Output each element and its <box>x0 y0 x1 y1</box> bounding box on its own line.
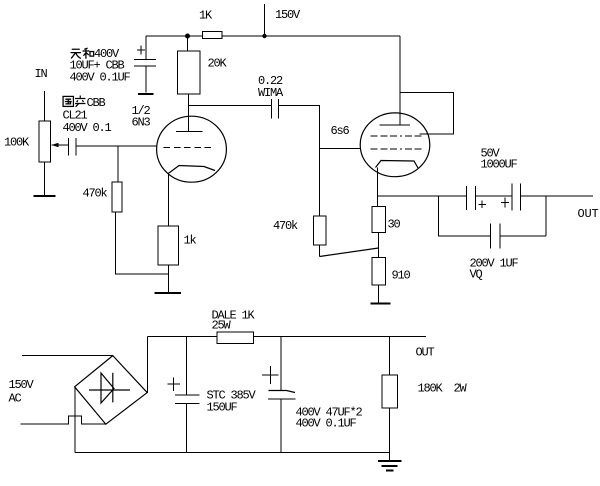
polarity plus of C1 <box>479 201 487 209</box>
tube V1 plate bar <box>176 131 203 133</box>
capacitor filter 10UF+CBB lead <box>145 36 147 93</box>
svg-text:6s6: 6s6 <box>331 124 350 138</box>
svg-text:30: 30 <box>388 218 401 232</box>
wire top B+ rail <box>146 35 400 37</box>
wire V1 cathode lead <box>168 173 170 227</box>
wire STC cap bottom lead <box>186 404 188 453</box>
polarity plus of STC cap <box>168 378 181 392</box>
capacitor coupling 0.22 WIMA plates <box>272 99 279 119</box>
wire 470k bottom to cathode return <box>116 212 169 274</box>
ground earth symbol <box>378 453 402 471</box>
bridge diode cathode bar <box>112 373 114 403</box>
ground bar under 1k <box>155 292 182 294</box>
tube V2 6s6 envelope <box>360 113 430 177</box>
svg-text:25W: 25W <box>212 319 232 333</box>
svg-text:400V 0.1: 400V 0.1 <box>63 121 112 135</box>
potentiometer R 100K body <box>39 121 51 162</box>
svg-text:6N3: 6N3 <box>132 116 151 130</box>
wire AC input lower with crossover hop <box>21 416 106 424</box>
capacitor 47UF*2 upper plate with tick <box>269 391 296 393</box>
capacitor filter 10UF+CBB plates <box>134 60 156 67</box>
wire screen-to-plate tie loop <box>400 93 454 135</box>
resistor R 180K 2W <box>382 375 398 408</box>
svg-text:AC: AC <box>9 392 22 406</box>
node junction dot at 150V tap <box>262 34 266 38</box>
node junction dot at 20K tap <box>185 34 190 39</box>
tube V1 1/2 6N3 envelope <box>157 116 227 182</box>
tube V2 control grid dash-dot line <box>371 148 423 150</box>
svg-text:400V 0.1UF: 400V 0.1UF <box>70 71 131 85</box>
polarity plus sign of filter cap <box>137 46 145 55</box>
wire 150V supply stub <box>264 4 266 36</box>
resistor R DALE 1K 25W <box>217 332 254 344</box>
wire V2 cathode lead <box>377 168 379 207</box>
capacitor 47UF*2 lower plate <box>268 398 296 400</box>
potentiometer wiper arrowhead <box>52 143 59 147</box>
tube V2 cathode <box>376 161 419 169</box>
wire 20K to plate of V1 <box>188 94 190 132</box>
wire 100K bottom lead <box>44 162 46 195</box>
wire bypass branch left drop <box>439 196 491 236</box>
potentiometer wiper arm <box>52 144 69 146</box>
value label 天和400V <box>71 47 120 61</box>
resistor R 1k cathode <box>158 226 179 265</box>
svg-text:20K: 20K <box>208 57 228 71</box>
svg-text:VQ: VQ <box>470 268 483 282</box>
wire 30 to 910 <box>378 233 380 258</box>
capacitor output electrolytic C2 plates <box>512 184 521 211</box>
resistor R 30 cathode <box>372 207 386 233</box>
svg-text:400V 0.1UF: 400V 0.1UF <box>296 417 357 431</box>
tube V2 plate bar <box>380 124 411 126</box>
capacitor input CL21 plates <box>69 138 77 156</box>
wire bypass branch right rise <box>501 196 547 236</box>
polarity plus of 47UF cap <box>262 366 279 384</box>
wire B+ rail of PSU <box>148 336 427 338</box>
wire coupling cap to grid of V2 <box>279 106 361 149</box>
wire 47UF cap riser <box>280 337 282 391</box>
wire 180K riser <box>389 337 391 376</box>
wire AC input upper <box>22 355 113 357</box>
resistor R 20K <box>178 51 201 94</box>
resistor R 470k grid leak V2 <box>314 216 327 245</box>
bridge rectifier diamond <box>75 356 148 425</box>
tube V1 cathode <box>169 166 215 174</box>
bridge diode triangle <box>101 373 114 403</box>
svg-text:470k: 470k <box>83 187 108 201</box>
svg-text:1K: 1K <box>199 9 213 23</box>
wire diagonal 470k return to cathode divider <box>320 248 379 257</box>
ground bar under 100K <box>34 195 56 197</box>
tube V1 grid dashed line <box>164 147 215 149</box>
svg-text:150UF: 150UF <box>207 401 238 415</box>
terminal IN stub <box>44 91 46 121</box>
wire 180K bottom lead <box>389 408 391 453</box>
ground bar under filter cap <box>138 93 154 95</box>
svg-text:CBB: CBB <box>87 96 106 110</box>
resistor R 910 <box>372 258 386 286</box>
svg-text:WIMA: WIMA <box>258 86 284 100</box>
wire 47UF bottom lead <box>280 399 282 453</box>
wire grid leak tap down to 470k <box>117 146 119 182</box>
wire output to OUT <box>521 195 593 197</box>
wire 1k bottom lead <box>168 265 170 292</box>
svg-text:150V: 150V <box>275 8 301 22</box>
wire bridge positive lead <box>147 337 149 393</box>
wire plate branch to coupling cap <box>189 105 272 107</box>
svg-text:180K 2W: 180K 2W <box>418 382 468 396</box>
capacitor bypass 200V 1UF plates <box>491 224 501 249</box>
bridge diode bar line <box>89 389 130 391</box>
tube V2 screen grid dash-dot line <box>371 135 423 137</box>
wire between series output caps <box>476 195 512 197</box>
svg-text:IN: IN <box>35 67 48 81</box>
wire 20K top lead <box>187 36 189 51</box>
wire input cap to grid of V1 <box>77 145 157 147</box>
wire grid tap down to 470k of V2 <box>319 149 321 217</box>
resistor R 1K (horizontal) <box>203 32 223 39</box>
wire 470k V2 bottom lead <box>319 245 321 257</box>
wire STC cap riser <box>186 337 188 396</box>
capacitor output electrolytic C1 plates <box>467 186 476 210</box>
wire ground return rail <box>75 452 390 454</box>
svg-text:910: 910 <box>392 269 411 283</box>
svg-text:1k: 1k <box>184 234 197 248</box>
svg-text:OUT: OUT <box>578 207 599 221</box>
svg-text:1000UF: 1000UF <box>481 158 518 172</box>
label 国产CBB <box>63 96 105 111</box>
polarity plus of C2 <box>501 198 509 208</box>
svg-text:150V: 150V <box>9 378 35 392</box>
capacitor STC 150UF plates <box>175 395 200 404</box>
wire cathode output branch <box>378 195 467 197</box>
wire 910 bottom lead <box>378 285 380 303</box>
resistor R 470k grid leak <box>112 182 122 212</box>
svg-text:OUT: OUT <box>416 346 435 360</box>
ground bar under 910 <box>371 302 391 304</box>
wire bridge negative lead <box>74 387 76 453</box>
svg-text:470k: 470k <box>273 219 298 233</box>
wire V2 plate lead from rail <box>399 36 401 125</box>
svg-text:100K: 100K <box>4 136 30 150</box>
